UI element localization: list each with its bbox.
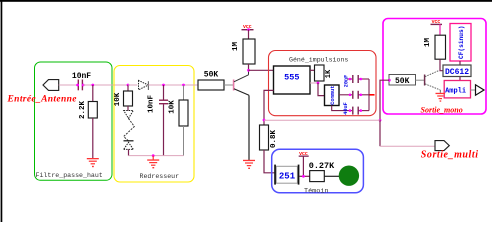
buzzer 251 <box>276 166 297 183</box>
ground <box>436 93 446 102</box>
wire vertical caps bus <box>368 79 370 111</box>
ground <box>243 160 255 169</box>
wire 555 lower left pin <box>264 90 274 125</box>
buffer output triangle <box>476 85 485 95</box>
wire zigzag <box>124 118 135 140</box>
wire <box>183 85 185 100</box>
block DC612 <box>443 65 471 77</box>
wire bottom rail <box>129 155 184 157</box>
resistor R9 50K <box>389 75 416 86</box>
IC U1 555 <box>274 66 311 94</box>
connector P1 input pentagon <box>43 80 59 91</box>
node junction <box>247 69 250 72</box>
ground <box>147 156 159 169</box>
wire <box>459 77 461 81</box>
wire <box>163 85 165 100</box>
wire emitter <box>248 95 250 160</box>
capacitor C5 plates <box>352 107 354 115</box>
svg-text:555: 555 <box>284 73 299 83</box>
node junction <box>127 84 130 87</box>
resistor R8 1M <box>435 35 446 59</box>
wire red stub <box>370 94 375 96</box>
wire <box>92 118 94 158</box>
svg-text:Géné_impulsions: Géné_impulsions <box>289 57 348 64</box>
wire <box>379 120 381 146</box>
connector P2 output pentagon <box>435 141 449 151</box>
diode D1 <box>139 80 149 89</box>
svg-text:10K: 10K <box>168 100 176 114</box>
capacitor C2 plates <box>159 99 168 101</box>
resistor R10 0.27K <box>310 171 325 182</box>
svg-text:Filtre_passe_haut: Filtre_passe_haut <box>36 172 103 179</box>
subcircuit box Redresseur <box>114 66 194 183</box>
wire multi net <box>264 119 380 121</box>
svg-text:251: 251 <box>279 172 296 182</box>
svg-text:Redresseur: Redresseur <box>140 173 180 180</box>
svg-text:40uF: 40uF <box>343 102 349 114</box>
svg-text:1M: 1M <box>424 38 432 48</box>
block Ampli <box>444 81 470 98</box>
diode D3 <box>124 140 134 142</box>
svg-text:0.27K: 0.27K <box>309 161 335 171</box>
wire <box>248 30 250 39</box>
wire <box>264 150 274 173</box>
svg-text:Commut: Commut <box>330 85 336 104</box>
subcircuit box Sortie_mono <box>383 19 486 115</box>
LED indicator <box>339 166 359 186</box>
svg-text:50K: 50K <box>395 77 410 86</box>
wire <box>59 84 78 86</box>
node junction <box>152 154 155 157</box>
wire <box>163 104 165 155</box>
resistor R7 1K <box>315 65 325 81</box>
wire to 555 <box>249 69 274 71</box>
svg-text:1K: 1K <box>325 69 333 78</box>
svg-text:10nF: 10nF <box>72 72 91 81</box>
wire <box>127 85 129 91</box>
node junction <box>317 82 320 85</box>
node junction <box>379 119 382 122</box>
resistor R3 10K <box>179 100 188 126</box>
resistor R4 50K <box>198 80 224 90</box>
wire 555 pin <box>310 82 318 84</box>
pin dots C1 <box>76 84 79 87</box>
svg-text:2.2K: 2.2K <box>79 101 87 120</box>
wire <box>416 79 425 81</box>
subcircuit box Filtre_passe_haut <box>35 62 113 180</box>
transistor Q2 <box>424 75 426 86</box>
wire <box>440 59 443 70</box>
resistor R5 1M <box>243 39 255 64</box>
svg-text:10K: 10K <box>114 92 122 106</box>
wire <box>92 85 94 102</box>
wire <box>318 83 325 96</box>
svg-text:CF(sinus): CF(sinus) <box>458 26 465 59</box>
wire <box>224 84 233 86</box>
svg-text:Témoin: Témoin <box>304 187 328 195</box>
node junction <box>263 119 266 122</box>
capacitor C3 plates <box>352 75 354 83</box>
svg-text:50K: 50K <box>204 71 219 80</box>
capacitor C1 plates <box>77 80 79 91</box>
wire <box>470 89 476 91</box>
wire <box>83 84 128 86</box>
resistor R2 10K <box>124 91 133 106</box>
block CF(sinus) <box>450 24 471 62</box>
wire <box>380 145 435 147</box>
wire to D1 <box>128 84 137 86</box>
node junction <box>162 84 165 87</box>
node junction <box>182 84 185 87</box>
svg-text:Entrée_Antenne: Entrée_Antenne <box>7 95 78 105</box>
svg-text:1M: 1M <box>232 42 240 52</box>
diode D2 <box>124 111 134 119</box>
resistor R6 0.8K <box>260 125 269 150</box>
transistor Q1 <box>233 80 235 91</box>
wire <box>299 175 309 177</box>
sheet frame top border <box>0 0 492 2</box>
wire to 50K <box>194 84 198 86</box>
svg-text:20nF: 20nF <box>343 75 349 87</box>
wire <box>459 61 461 65</box>
subcircuit box Géné_impulsions <box>269 51 377 116</box>
resistor R1 2.2K <box>88 102 97 119</box>
wire <box>248 64 250 70</box>
svg-text:Ampli: Ampli <box>445 87 466 95</box>
svg-text:Sortie_mono: Sortie_mono <box>421 105 463 114</box>
ground <box>87 158 99 167</box>
wire <box>380 80 389 120</box>
svg-text:Sortie_multi: Sortie_multi <box>421 149 479 160</box>
wire <box>183 126 185 156</box>
wire row1 <box>347 78 352 80</box>
svg-text:10nF: 10nF <box>148 95 156 114</box>
wire <box>148 84 194 86</box>
wire <box>439 24 441 35</box>
wire <box>128 149 130 155</box>
svg-text:DC612: DC612 <box>445 68 469 77</box>
wire 555 right pin to 1K <box>310 69 315 71</box>
wire <box>127 106 129 111</box>
wire row3 <box>332 106 352 111</box>
block Commut <box>325 85 340 106</box>
sheet frame left border <box>1 0 3 222</box>
wire <box>324 175 339 177</box>
subcircuit box Témoin <box>272 149 364 193</box>
svg-text:0.8K: 0.8K <box>270 130 278 149</box>
node junction <box>91 84 94 87</box>
capacitor C4 plates <box>352 91 354 99</box>
wire <box>302 156 304 176</box>
wire row2 <box>339 94 352 96</box>
